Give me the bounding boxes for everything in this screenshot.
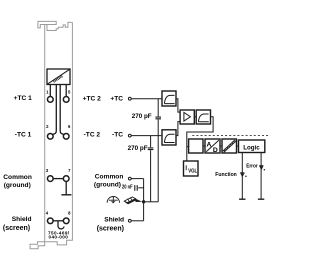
svg-text:(screen): (screen) xyxy=(3,225,30,232)
svg-text:5: 5 xyxy=(68,90,71,95)
svg-text:6: 6 xyxy=(68,124,71,129)
svg-text:-TC 2: -TC 2 xyxy=(84,132,101,139)
svg-text:8: 8 xyxy=(68,211,71,216)
svg-text:(ground): (ground) xyxy=(94,182,121,189)
svg-text:Error: Error xyxy=(246,163,258,169)
svg-text:Common: Common xyxy=(3,174,32,181)
svg-text:+TC 1: +TC 1 xyxy=(14,95,32,102)
svg-text:2: 2 xyxy=(46,124,49,129)
svg-text:VGL: VGL xyxy=(188,168,197,174)
svg-text:Common: Common xyxy=(95,174,124,181)
svg-text:4: 4 xyxy=(46,211,49,216)
svg-text:A: A xyxy=(207,141,212,148)
svg-text:270 pF: 270 pF xyxy=(132,113,152,120)
svg-text:(ground): (ground) xyxy=(4,182,31,189)
svg-text:20 nF: 20 nF xyxy=(122,184,133,190)
svg-text:7: 7 xyxy=(68,168,71,173)
svg-text:(screen): (screen) xyxy=(97,226,124,233)
svg-text:040-000: 040-000 xyxy=(49,235,69,240)
svg-text:+TC 2: +TC 2 xyxy=(83,95,101,102)
svg-text:Shield: Shield xyxy=(104,216,124,223)
svg-text:270 pF: 270 pF xyxy=(128,145,148,152)
svg-text:+TC: +TC xyxy=(110,95,123,102)
svg-text:Function: Function xyxy=(215,172,237,178)
svg-text:-TC 1: -TC 1 xyxy=(15,132,32,139)
svg-text:Shield: Shield xyxy=(12,216,32,223)
svg-text:Logic: Logic xyxy=(243,144,260,151)
svg-text:3: 3 xyxy=(46,168,49,173)
svg-text:D: D xyxy=(213,147,218,154)
svg-text:1: 1 xyxy=(46,90,49,95)
svg-text:-TC: -TC xyxy=(112,132,123,139)
